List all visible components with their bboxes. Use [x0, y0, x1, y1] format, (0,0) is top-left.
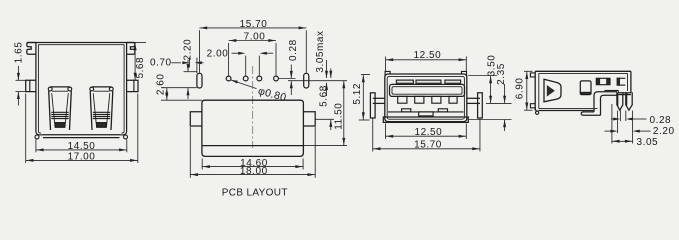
svg-text:PCB LAYOUT: PCB LAYOUT: [222, 188, 288, 199]
svg-text:5.68: 5.68: [318, 85, 329, 107]
svg-text:6.90: 6.90: [514, 78, 525, 100]
svg-text:0.70: 0.70: [150, 57, 172, 68]
svg-text:12.50: 12.50: [415, 127, 443, 138]
svg-text:18.00: 18.00: [240, 166, 268, 177]
svg-text:17.00: 17.00: [68, 151, 96, 162]
svg-text:14.50: 14.50: [68, 141, 96, 152]
svg-text:11.50: 11.50: [333, 103, 344, 130]
svg-text:0.28: 0.28: [288, 39, 299, 61]
svg-text:12.50: 12.50: [414, 50, 442, 61]
svg-text:2.00: 2.00: [207, 49, 229, 60]
svg-text:2.60: 2.60: [155, 73, 166, 95]
svg-text:1.65: 1.65: [13, 42, 24, 64]
svg-text:3.05: 3.05: [637, 137, 659, 148]
svg-text:2.20: 2.20: [183, 39, 194, 61]
svg-text:15.70: 15.70: [414, 140, 442, 151]
svg-text:2.20: 2.20: [653, 126, 675, 137]
svg-text:7.00: 7.00: [244, 32, 266, 43]
svg-text:0.28: 0.28: [650, 115, 672, 126]
svg-text:15.70: 15.70: [240, 19, 268, 30]
svg-text:3.05max: 3.05max: [315, 30, 326, 72]
svg-text:5.12: 5.12: [352, 83, 363, 105]
svg-text:2.35: 2.35: [496, 63, 507, 85]
svg-text:5.68: 5.68: [135, 57, 146, 79]
